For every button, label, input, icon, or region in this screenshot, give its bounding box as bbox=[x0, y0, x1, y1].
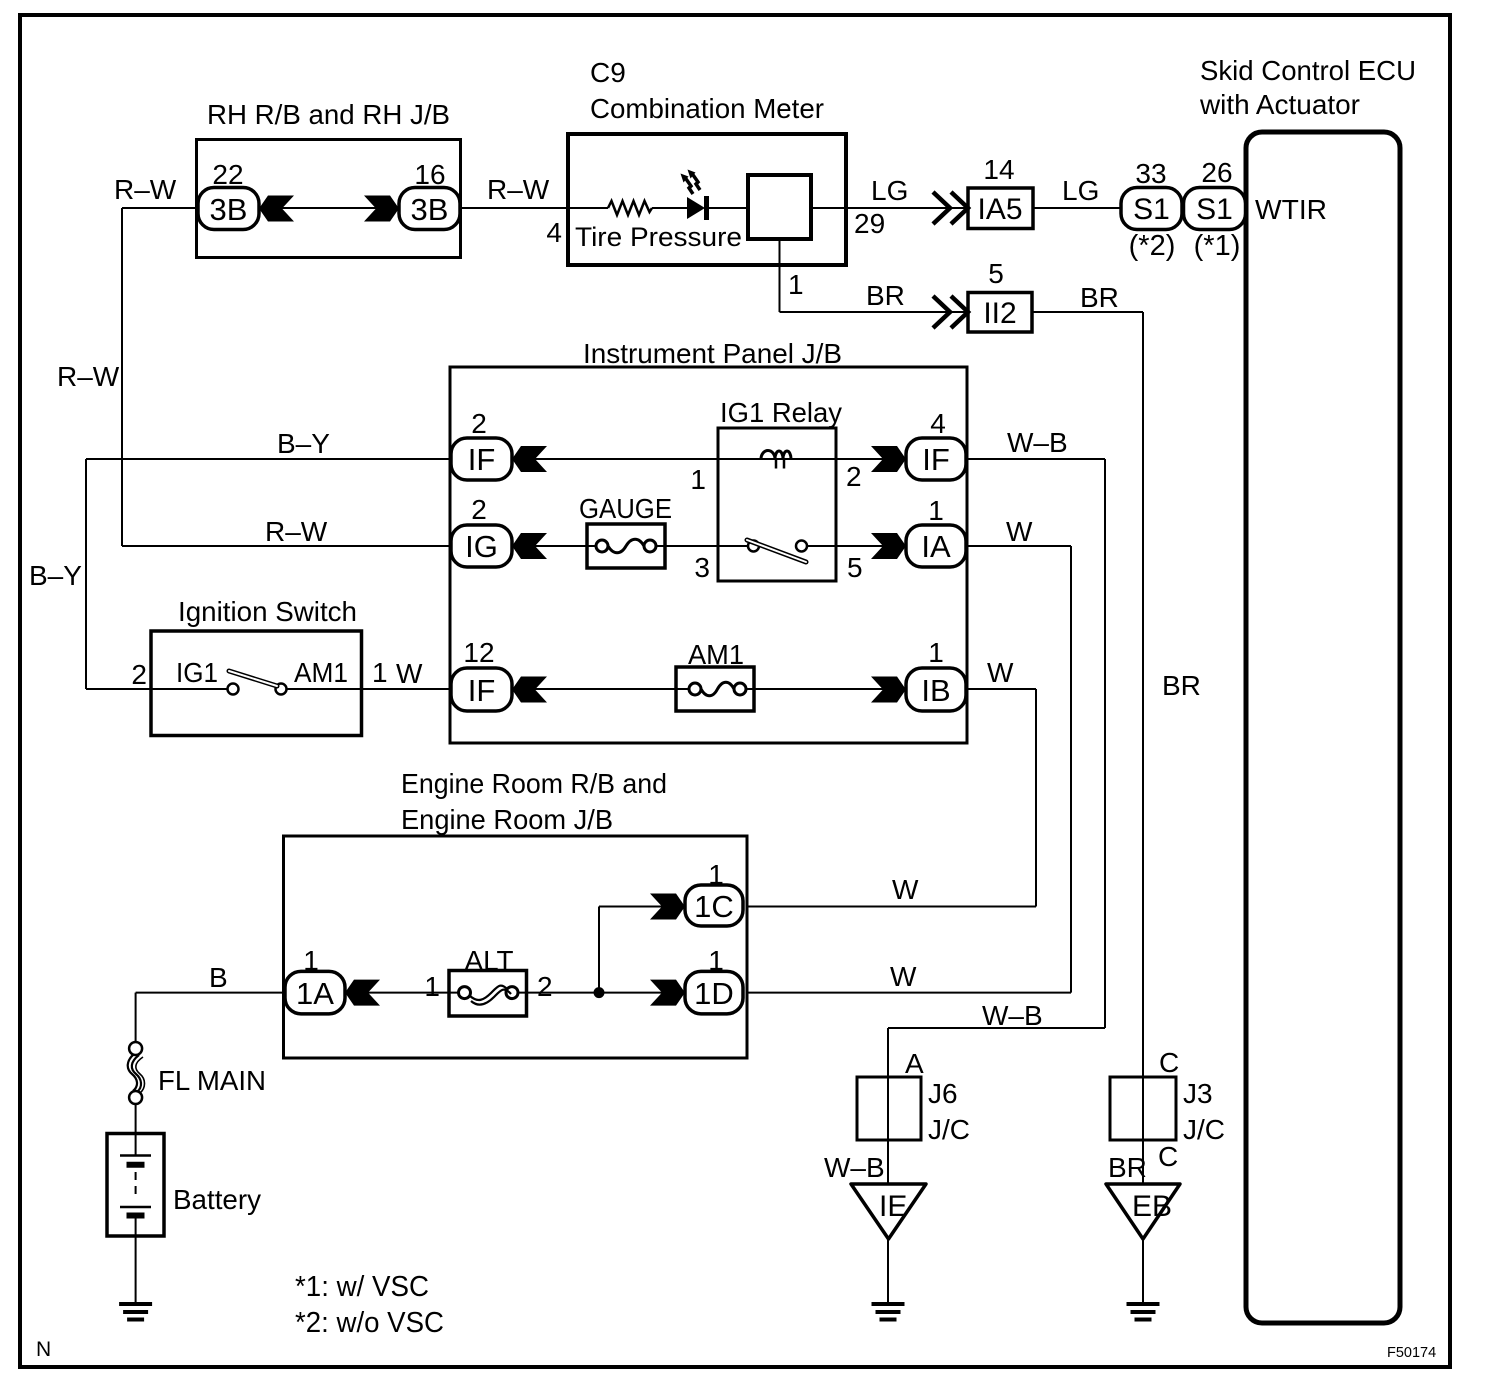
svg-text:1: 1 bbox=[372, 657, 388, 688]
svg-text:Skid Control ECU: Skid Control ECU bbox=[1200, 55, 1416, 86]
svg-text:3: 3 bbox=[694, 552, 710, 583]
svg-text:with Actuator: with Actuator bbox=[1199, 89, 1360, 120]
svg-text:IF: IF bbox=[468, 442, 496, 477]
svg-text:Ignition Switch: Ignition Switch bbox=[178, 596, 357, 627]
svg-text:26: 26 bbox=[1201, 157, 1232, 188]
svg-text:IG1: IG1 bbox=[176, 657, 218, 688]
svg-text:R–W: R–W bbox=[57, 361, 120, 392]
svg-text:W: W bbox=[890, 961, 917, 992]
svg-text:W–B: W–B bbox=[824, 1152, 885, 1183]
svg-text:F50174: F50174 bbox=[1387, 1345, 1436, 1361]
svg-text:2: 2 bbox=[471, 408, 487, 439]
svg-text:2: 2 bbox=[471, 494, 487, 525]
svg-text:B–Y: B–Y bbox=[277, 428, 330, 459]
svg-text:AM1: AM1 bbox=[688, 639, 744, 670]
svg-text:14: 14 bbox=[983, 154, 1014, 185]
svg-text:W–B: W–B bbox=[982, 1000, 1043, 1031]
svg-text:BR: BR bbox=[1080, 282, 1119, 313]
svg-text:*2: w/o VSC: *2: w/o VSC bbox=[295, 1307, 444, 1339]
svg-text:C: C bbox=[1159, 1047, 1179, 1078]
svg-text:2: 2 bbox=[131, 659, 147, 690]
svg-text:4: 4 bbox=[930, 408, 946, 439]
svg-text:(*1): (*1) bbox=[1194, 230, 1241, 262]
svg-text:IG1 Relay: IG1 Relay bbox=[720, 397, 842, 428]
svg-text:16: 16 bbox=[414, 159, 445, 190]
svg-text:R–W: R–W bbox=[487, 174, 550, 205]
svg-text:N: N bbox=[36, 1338, 51, 1361]
svg-text:IG: IG bbox=[465, 529, 498, 564]
svg-text:Instrument Panel J/B: Instrument Panel J/B bbox=[583, 338, 842, 369]
svg-text:AM1: AM1 bbox=[294, 657, 348, 688]
svg-text:IE: IE bbox=[879, 1190, 907, 1223]
svg-text:5: 5 bbox=[988, 258, 1004, 289]
svg-text:RH R/B and RH J/B: RH R/B and RH J/B bbox=[207, 99, 450, 130]
svg-text:FL MAIN: FL MAIN bbox=[158, 1065, 266, 1096]
svg-text:*1: w/ VSC: *1: w/ VSC bbox=[295, 1271, 429, 1303]
svg-text:EB: EB bbox=[1132, 1190, 1172, 1223]
svg-text:LG: LG bbox=[871, 175, 908, 206]
svg-text:5: 5 bbox=[847, 552, 863, 583]
svg-text:R–W: R–W bbox=[265, 516, 328, 547]
svg-text:1: 1 bbox=[708, 859, 724, 890]
svg-text:A: A bbox=[905, 1048, 924, 1079]
svg-text:29: 29 bbox=[854, 208, 885, 239]
svg-text:22: 22 bbox=[212, 159, 243, 190]
svg-text:1: 1 bbox=[303, 945, 319, 976]
svg-text:W–B: W–B bbox=[1007, 427, 1068, 458]
svg-text:BR: BR bbox=[1162, 670, 1201, 701]
svg-text:W: W bbox=[987, 657, 1014, 688]
svg-text:IB: IB bbox=[921, 673, 950, 708]
svg-text:B–Y: B–Y bbox=[29, 560, 82, 591]
svg-text:1: 1 bbox=[690, 464, 706, 495]
svg-text:3B: 3B bbox=[210, 192, 248, 227]
svg-text:1A: 1A bbox=[296, 976, 334, 1011]
svg-text:J6: J6 bbox=[928, 1078, 958, 1109]
svg-text:33: 33 bbox=[1135, 158, 1166, 189]
svg-text:J3: J3 bbox=[1183, 1078, 1213, 1109]
svg-text:(*2): (*2) bbox=[1129, 230, 1176, 262]
svg-text:2: 2 bbox=[846, 461, 862, 492]
svg-text:Engine Room J/B: Engine Room J/B bbox=[401, 804, 613, 835]
svg-text:S1: S1 bbox=[1196, 193, 1233, 226]
svg-text:1: 1 bbox=[708, 945, 724, 976]
svg-text:BR: BR bbox=[1108, 1152, 1147, 1183]
svg-text:B: B bbox=[209, 962, 228, 993]
svg-text:Combination Meter: Combination Meter bbox=[590, 93, 824, 124]
svg-text:BR: BR bbox=[866, 280, 905, 311]
svg-text:C9: C9 bbox=[590, 57, 626, 88]
svg-text:J/C: J/C bbox=[1183, 1114, 1225, 1145]
svg-text:IF: IF bbox=[468, 673, 496, 708]
svg-text:ALT: ALT bbox=[465, 945, 514, 976]
svg-text:1D: 1D bbox=[694, 976, 734, 1011]
svg-text:1C: 1C bbox=[694, 889, 734, 924]
svg-text:1: 1 bbox=[424, 971, 440, 1002]
svg-text:W: W bbox=[892, 874, 919, 905]
svg-text:IA: IA bbox=[921, 529, 951, 564]
svg-text:W: W bbox=[1006, 516, 1033, 547]
svg-text:IA5: IA5 bbox=[977, 193, 1022, 226]
svg-text:Engine Room R/B and: Engine Room R/B and bbox=[401, 768, 667, 799]
svg-text:Battery: Battery bbox=[173, 1184, 261, 1215]
svg-text:IF: IF bbox=[922, 442, 950, 477]
svg-text:4: 4 bbox=[546, 217, 562, 248]
svg-text:3B: 3B bbox=[411, 192, 449, 227]
svg-text:WTIR: WTIR bbox=[1255, 194, 1327, 225]
svg-text:1: 1 bbox=[928, 637, 944, 668]
svg-text:J/C: J/C bbox=[928, 1114, 970, 1145]
svg-text:12: 12 bbox=[463, 637, 494, 668]
svg-text:II2: II2 bbox=[983, 297, 1016, 330]
svg-text:C: C bbox=[1158, 1141, 1178, 1172]
svg-text:W: W bbox=[396, 658, 423, 689]
svg-text:LG: LG bbox=[1062, 175, 1099, 206]
svg-text:Tire Pressure: Tire Pressure bbox=[575, 222, 742, 252]
svg-text:1: 1 bbox=[928, 495, 944, 526]
svg-text:1: 1 bbox=[788, 269, 804, 300]
svg-text:R–W: R–W bbox=[114, 174, 177, 205]
svg-text:GAUGE: GAUGE bbox=[579, 493, 672, 524]
svg-text:2: 2 bbox=[537, 971, 553, 1002]
svg-text:S1: S1 bbox=[1133, 193, 1170, 226]
